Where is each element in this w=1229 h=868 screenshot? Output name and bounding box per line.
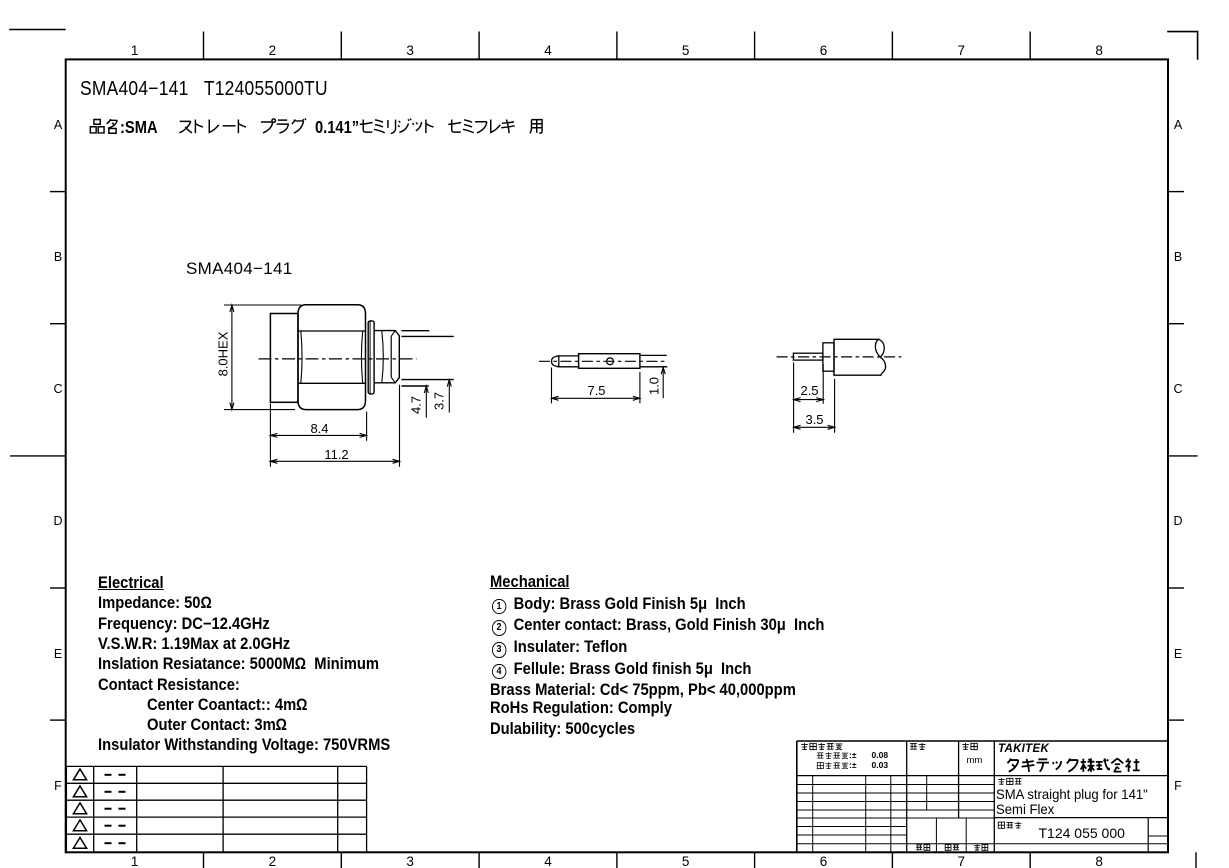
full width lower row line [797, 843, 1168, 845]
nose inner face line [390, 336, 392, 377]
cable line top long [401, 335, 453, 337]
column tick bottom 2/3 [340, 852, 342, 868]
grid line y=826.5 [797, 826, 907, 828]
column tick top 1/2 [203, 32, 205, 60]
grid line y=835.0 [797, 834, 907, 836]
nose / front outline [374, 331, 399, 383]
column tick bottom 3/4 [478, 852, 480, 868]
column tick bottom 1/2 [203, 852, 205, 868]
row letter A left [54, 118, 62, 132]
grid line y=818.0 [797, 817, 995, 819]
centerline view3 (dash-dot) [777, 356, 902, 358]
extension line left (shared 8.4/11.2) [269, 404, 271, 467]
grid line y=793.0 [797, 792, 995, 794]
revision triangle row 2 [73, 786, 86, 797]
flange inner line [369, 321, 371, 394]
row letter E right [1174, 647, 1182, 661]
label 未記入公差 [801, 743, 842, 750]
column number 4 top [544, 43, 552, 59]
contact hole circle [607, 358, 614, 365]
sub row line [1148, 835, 1168, 837]
kanji 品 [90, 120, 104, 133]
Mechanical spec text block [490, 573, 570, 592]
column number 1 top [131, 43, 139, 59]
trim mark top-left [9, 29, 65, 31]
approval cell divider [965, 818, 967, 852]
dimension line 2.5 [794, 399, 824, 401]
column number 2 top [269, 43, 277, 59]
row letter B right [1174, 250, 1182, 264]
column tick bottom 5/6 [754, 852, 756, 868]
column number 8 top [1095, 43, 1103, 59]
product name line 1 [996, 787, 1148, 803]
label 単位 [962, 743, 977, 750]
revision triangle row 4 [73, 820, 86, 831]
column tick bottom 6/7 [891, 852, 893, 868]
row letter F right [1174, 779, 1182, 793]
dim text 8.0HEX [217, 331, 232, 376]
grid line y=801.5 [797, 801, 995, 803]
label 部品名 [998, 822, 1021, 829]
part number right sub column [1147, 818, 1149, 853]
column tick top 3/4 [478, 32, 480, 60]
label 検図 [974, 844, 988, 850]
row tick right 3 [1168, 587, 1184, 589]
contact tail wires [640, 354, 667, 356]
column number 6 bottom (clipped) [820, 854, 828, 868]
contact body [579, 354, 640, 369]
column tick top 6/7 [891, 32, 893, 60]
revision dashes row 5 [105, 842, 112, 844]
drawing number title [80, 78, 328, 101]
header row divider [797, 775, 1168, 777]
column tick top 4/5 [616, 32, 618, 60]
nose curvature arc [382, 331, 384, 383]
label 設計 [945, 845, 959, 851]
cable line top short [401, 330, 429, 332]
dimension line 1.0 [662, 367, 664, 398]
column number 5 bottom (clipped) [682, 854, 690, 868]
trim mark top-right [1168, 32, 1198, 59]
title block [797, 741, 1168, 852]
column number 2 bottom (clipped) [269, 854, 277, 868]
cable outer jacket [834, 339, 881, 375]
extension line left (shared 2.5/3.5) [793, 363, 795, 433]
extension line right 7.5 [639, 372, 641, 403]
label 直径公差 [817, 762, 848, 769]
text 0.141 inch [315, 117, 359, 137]
dim text 7.5 [587, 384, 605, 399]
nose chamfer diagonals [391, 331, 395, 337]
text :SMA [120, 117, 158, 137]
label 製図 [916, 845, 930, 851]
extension line top [224, 304, 302, 306]
grid v3 [890, 776, 892, 853]
contact pin shaft [559, 356, 579, 367]
revision dashes row 3 [105, 808, 112, 810]
cable inner pin [793, 353, 823, 360]
revision triangle row 1 [73, 769, 86, 780]
label 製品名 [998, 778, 1021, 785]
column number 3 top [406, 43, 414, 59]
extension line right 3.5 [834, 379, 836, 433]
column number 7 bottom (clipped) [958, 854, 966, 868]
column number 3 bottom (clipped) [406, 854, 414, 868]
row letter D left [53, 514, 62, 528]
TAKITEK logo text [998, 743, 1049, 756]
kanji 用 [530, 120, 542, 134]
column number 1 bottom (clipped) [131, 854, 139, 868]
dim text 1.0 [648, 376, 663, 394]
row letter D right [1173, 514, 1182, 528]
divider TAKITEK section [993, 741, 995, 852]
katakana セミリジット [360, 119, 434, 134]
dimension line 8.4 [270, 434, 366, 436]
grid line y=784.5 [797, 784, 995, 786]
view label SMA404-141 [186, 259, 293, 279]
kanji 名 [107, 119, 117, 133]
dimension line 11.2 [270, 460, 399, 462]
grid v2 [865, 776, 867, 853]
extension line right 11.2 [399, 385, 401, 467]
column number 6 top [820, 43, 828, 59]
revision dashes row 2 [105, 791, 112, 793]
column tick top 7/8 [1029, 32, 1031, 60]
row tick left 4 [50, 719, 66, 721]
grid v1 [812, 776, 814, 853]
divider 尺度 column [906, 741, 908, 852]
row tick right 1 [1168, 323, 1184, 325]
revision dashes row 4 [105, 825, 112, 827]
tolerance 0.03 [872, 761, 889, 771]
row letter A right [1174, 118, 1182, 132]
dim text 2.5 [800, 384, 818, 399]
row tick right C/D (long center mark) [1168, 455, 1198, 457]
label 尺度 [910, 743, 925, 750]
divider 単位 column [958, 741, 960, 818]
revision triangle row 5 [73, 838, 86, 849]
cable line bottom short [401, 385, 428, 387]
katakana ストレート [179, 120, 246, 134]
row tick right 4 [1168, 719, 1184, 721]
revision dashes row 1 [105, 774, 112, 776]
dimension line 7.5 [552, 397, 640, 399]
row letter F left [54, 779, 62, 793]
extension line left 7.5 [551, 368, 553, 404]
revision table bottom-left [66, 766, 366, 852]
Electrical spec text block [98, 574, 164, 593]
company name タキテック株式会社 [1007, 758, 1139, 772]
row tick left 3 [50, 587, 66, 589]
column tick top 2/3 [340, 32, 342, 60]
body back cap outline [270, 314, 298, 403]
tolerance pm 1 [849, 751, 857, 761]
column tick top 5/6 [754, 32, 756, 60]
dimension line 3.7 [448, 380, 450, 413]
katakana プラグ [261, 118, 306, 133]
flange [368, 321, 374, 394]
hex body outline [298, 305, 366, 410]
title block left edge [796, 741, 798, 852]
cable break curl tail [880, 357, 885, 375]
divider above 部品名 row [994, 817, 1168, 819]
dim text 3.5 [805, 413, 823, 428]
approval cell divider [935, 818, 937, 852]
title block top edge [797, 740, 1168, 742]
row tick left 1 [50, 323, 66, 325]
dim text 11.2 [324, 448, 348, 463]
hex facet lines [298, 330, 366, 332]
katakana セミフレキ [448, 120, 514, 134]
dim text 3.7 [433, 392, 448, 410]
cable break curl [875, 339, 884, 357]
dimension line 4.7 [425, 386, 427, 418]
tolerance 0.08 [872, 751, 889, 761]
grid line y=810.0 [797, 809, 995, 811]
row tick left C/D (long center mark) [10, 455, 66, 457]
dimension line 3.5 [794, 426, 835, 428]
dim text 8.4 [310, 422, 328, 437]
cable line bottom long [401, 379, 453, 381]
column tick bottom 7/8 [1029, 852, 1031, 868]
revision triangle row 3 [73, 803, 86, 814]
trim mark bottom-right [1195, 852, 1197, 868]
column number 4 bottom (clipped) [544, 854, 552, 868]
unit mm [967, 756, 983, 767]
row letter C left [53, 382, 62, 396]
centerline view1 (dash-dot) [259, 358, 417, 360]
column number 7 top [958, 43, 966, 59]
column number 5 top [682, 43, 690, 59]
hex facet arcs [301, 331, 302, 383]
row tick right 0 [1168, 191, 1184, 193]
dimension line 8.0HEX [231, 305, 233, 410]
extension line right 2.5 [822, 364, 824, 404]
part number T124 055 000 [1039, 825, 1125, 841]
row letter B left [54, 250, 62, 264]
contact pin tip [552, 356, 559, 367]
label 長度公差 [817, 752, 848, 759]
row letter E left [54, 647, 62, 661]
tolerance pm 2 [849, 761, 857, 771]
row letter C right [1173, 382, 1182, 396]
row tick left 0 [50, 191, 66, 193]
centerline view2 (dash-dot) [539, 360, 667, 362]
extension line right 8.4 [366, 412, 368, 441]
grid v middle [926, 776, 928, 810]
dim text 4.7 [409, 396, 424, 414]
product name line 2 [996, 802, 1054, 818]
extension line bottom [224, 409, 295, 411]
cable dielectric step [823, 343, 834, 371]
column tick bottom 4/5 [616, 852, 618, 868]
column number 8 bottom (clipped) [1095, 854, 1103, 868]
